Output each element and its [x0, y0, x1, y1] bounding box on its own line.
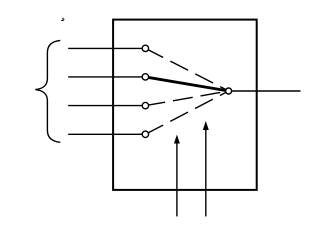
control arrow 2: [203, 121, 209, 216]
output wire: [229, 90, 301, 92]
contact 2: [142, 74, 148, 80]
input wire 3: [68, 105, 145, 107]
output node: [226, 88, 232, 94]
box (switch body): [113, 20, 257, 190]
dashed position 4: [145, 91, 228, 134]
dashed position 3: [145, 91, 228, 106]
brace grouping inputs: [35, 40, 60, 142]
small ink mark: [61, 19, 65, 21]
input wire 1: [68, 47, 145, 49]
contact 3: [142, 102, 148, 108]
selected wiper (thick): [145, 77, 228, 91]
input wire 4: [68, 133, 145, 135]
contact 1: [142, 45, 148, 51]
contact 4: [142, 131, 148, 137]
control arrow 1: [174, 135, 180, 217]
input wire 2: [68, 76, 145, 78]
dashed position 1: [145, 48, 228, 91]
